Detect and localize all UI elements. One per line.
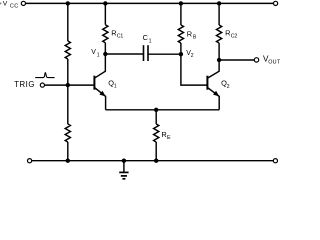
svg-text:R: R xyxy=(225,28,230,37)
svg-text:R: R xyxy=(187,29,192,38)
svg-text:OUT: OUT xyxy=(268,60,280,66)
svg-text:2: 2 xyxy=(191,53,194,59)
svg-text:1: 1 xyxy=(114,84,117,90)
svg-text:1: 1 xyxy=(97,52,100,58)
svg-text:V: V xyxy=(91,49,96,56)
svg-text:C1: C1 xyxy=(117,33,124,39)
svg-text:R: R xyxy=(161,130,166,139)
svg-text:TRIG: TRIG xyxy=(14,80,35,89)
svg-text:C2: C2 xyxy=(231,33,238,39)
svg-text:CC: CC xyxy=(10,4,19,10)
svg-text:E: E xyxy=(167,135,171,141)
svg-text:2: 2 xyxy=(227,84,230,90)
svg-text:V: V xyxy=(3,1,8,8)
svg-text:1: 1 xyxy=(149,38,152,44)
svg-text:B: B xyxy=(193,34,197,40)
